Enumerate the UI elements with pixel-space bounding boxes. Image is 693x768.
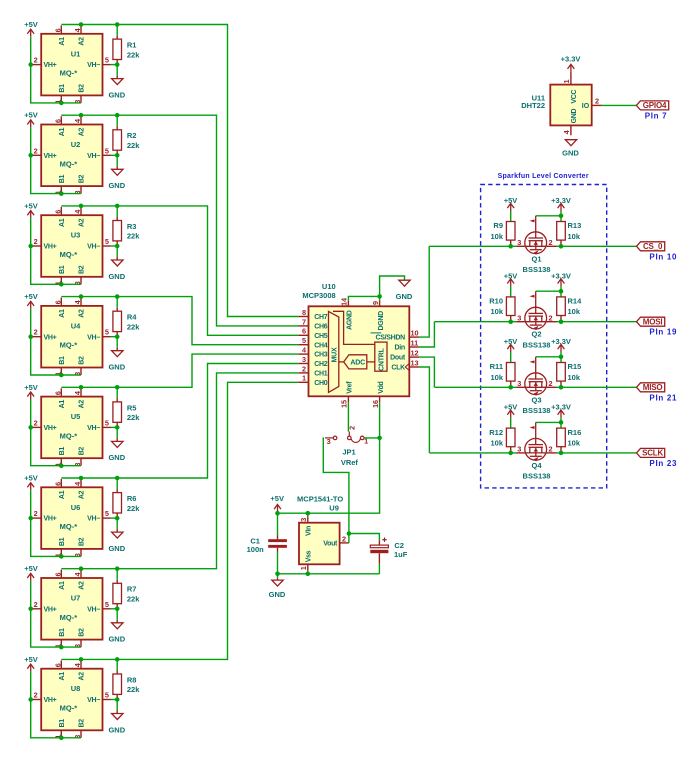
svg-text:+5V: +5V	[504, 271, 518, 280]
sensor U4 MQ-*	[32, 298, 111, 376]
wire to GND U7	[116, 609, 118, 620]
global label MISO	[637, 383, 665, 392]
R14 bottom pin	[560, 316, 562, 322]
resistor R2	[113, 130, 122, 150]
power +5V U9	[274, 505, 281, 513]
junction VH-/R3	[115, 244, 120, 249]
power +3.3V R13	[558, 204, 565, 212]
power +5V U8	[27, 664, 34, 672]
svg-text:MOSI: MOSI	[643, 318, 663, 327]
R11 bottom pin	[510, 381, 512, 387]
svg-text:6: 6	[53, 300, 62, 304]
svg-text:Q1: Q1	[531, 254, 541, 263]
R8 top pin	[116, 671, 118, 675]
pin 1 B1	[60, 549, 62, 557]
wire +3.3V to R13	[560, 211, 562, 221]
svg-text:12: 12	[411, 349, 419, 358]
svg-text:A2: A2	[79, 581, 86, 590]
pin 1 B1	[60, 458, 62, 466]
pin 2 VH+	[32, 336, 41, 338]
svg-text:MQ-*: MQ-*	[60, 522, 78, 531]
wire CS pin10	[419, 246, 429, 337]
svg-text:PIn 10: PIn 10	[649, 252, 677, 261]
svg-text:Dout: Dout	[390, 355, 406, 362]
svg-text:GND: GND	[108, 181, 125, 190]
svg-text:2: 2	[549, 313, 553, 322]
svg-text:BSS138: BSS138	[523, 340, 551, 349]
resistor R11	[506, 363, 515, 382]
svg-text:Vref: Vref	[346, 381, 353, 394]
svg-text:VH+: VH+	[44, 244, 57, 251]
wire gate Q3 to +3.3V	[536, 356, 561, 358]
power +5V R9	[507, 204, 514, 212]
svg-text:CH0: CH0	[314, 380, 328, 387]
R12 bottom pin	[510, 447, 512, 453]
svg-text:BSS138: BSS138	[523, 265, 551, 274]
junction R9/row	[508, 244, 513, 249]
svg-text:+5V: +5V	[24, 474, 38, 483]
svg-text:MQ-*: MQ-*	[60, 704, 78, 713]
svg-text:PIn 19: PIn 19	[649, 328, 677, 337]
pin 4 A2	[80, 570, 82, 578]
transistor Q3 BSS138	[525, 357, 547, 395]
svg-text:R15: R15	[568, 362, 582, 371]
R3 bottom pin	[116, 241, 118, 246]
junction VH-/R4	[115, 334, 120, 339]
pin 5 VH-	[103, 154, 111, 156]
svg-text:VH−: VH−	[87, 334, 100, 341]
svg-text:B2: B2	[79, 84, 86, 93]
svg-text:10: 10	[411, 329, 419, 338]
svg-text:10k: 10k	[568, 438, 581, 447]
svg-text:B2: B2	[79, 175, 86, 184]
gnd stub U7	[116, 620, 118, 623]
pin 5 VH-	[103, 699, 111, 701]
wire Vout up	[348, 534, 350, 543]
pin 4 A2	[80, 660, 82, 668]
svg-text:+3.3V: +3.3V	[551, 337, 571, 346]
svg-text:MQ-*: MQ-*	[60, 341, 78, 350]
svg-text:MQ-*: MQ-*	[60, 613, 78, 622]
ADC block	[344, 355, 367, 369]
junction B1 U4	[59, 373, 64, 378]
svg-text:10k: 10k	[490, 438, 503, 447]
wire GND rail U9	[278, 573, 380, 575]
wire U4 output to CH4	[61, 297, 298, 345]
R16 bottom pin	[560, 447, 562, 453]
svg-text:R3: R3	[127, 222, 137, 231]
pin 4 A2	[80, 388, 82, 396]
svg-text:2: 2	[549, 379, 553, 388]
junction VH+ U6	[28, 516, 33, 521]
wire Dout pin12	[419, 357, 434, 387]
wire rail to R2	[116, 115, 118, 126]
svg-text:6: 6	[53, 482, 62, 486]
gnd stub U9	[277, 578, 279, 580]
svg-text:GND: GND	[571, 108, 578, 123]
junction VH+ U1	[28, 62, 33, 67]
svg-text:VH−: VH−	[87, 425, 100, 432]
svg-text:1: 1	[562, 79, 571, 83]
clock marker pin 13	[405, 364, 409, 371]
svg-text:2: 2	[34, 328, 38, 337]
svg-text:B1: B1	[59, 628, 66, 637]
sensor U2 MQ-*	[32, 116, 111, 194]
svg-text:GND: GND	[108, 90, 125, 99]
svg-text:GND: GND	[108, 635, 125, 644]
junction R1 top	[115, 22, 120, 27]
power +3.3V R14	[558, 279, 565, 287]
junction Vout node	[347, 531, 352, 536]
pin 3 B2	[80, 95, 82, 103]
sensor U11 DHT22	[550, 85, 591, 126]
pin 6 stub	[298, 334, 308, 336]
svg-text:B1: B1	[59, 356, 66, 365]
pin 2 stub Q4	[547, 452, 557, 454]
svg-text:R13: R13	[568, 221, 582, 230]
R2 bottom pin	[116, 150, 118, 155]
pin 4 A2	[80, 116, 82, 124]
svg-text:5: 5	[105, 328, 109, 337]
wire +3.3V to R14	[560, 286, 562, 296]
R5 top pin	[116, 398, 118, 402]
R2 top pin	[116, 126, 118, 130]
junction R14/row	[559, 319, 564, 324]
svg-text:A1: A1	[59, 218, 66, 227]
svg-text:VH+: VH+	[44, 697, 57, 704]
svg-text:+5V: +5V	[24, 20, 38, 29]
svg-text:U2: U2	[71, 140, 81, 149]
svg-text:VH+: VH+	[44, 334, 57, 341]
R5 bottom pin	[116, 422, 118, 427]
global label CS_0	[637, 242, 665, 251]
svg-text:A1: A1	[59, 490, 66, 499]
sensor U5 MQ-*	[32, 388, 111, 466]
R4 bottom pin	[116, 332, 118, 337]
svg-text:PIn 21: PIn 21	[649, 393, 677, 402]
wire Vdd to +5V rail	[278, 402, 380, 513]
svg-text:BSS138: BSS138	[523, 472, 551, 481]
svg-text:B2: B2	[79, 356, 86, 365]
pin 8 stub	[298, 316, 308, 318]
svg-text:VH+: VH+	[44, 153, 57, 160]
svg-text:VH−: VH−	[87, 244, 100, 251]
wire row SCLK right	[557, 452, 637, 454]
pin 11 stub	[409, 346, 419, 348]
pin 1 B1	[60, 368, 62, 376]
R9 bottom pin	[510, 240, 512, 246]
svg-text:CNTRL: CNTRL	[379, 347, 386, 371]
pin 9 stub	[379, 300, 381, 306]
junction R7 top	[115, 566, 120, 571]
junction gate Q4	[559, 420, 564, 425]
junction R8 top	[115, 657, 120, 662]
C2 bottom pin	[378, 553, 380, 564]
power +3.3V U11	[568, 64, 575, 72]
svg-text:3: 3	[299, 518, 308, 522]
junction R3 top	[115, 204, 120, 209]
svg-text:VH+: VH+	[44, 516, 57, 523]
svg-text:5: 5	[105, 237, 109, 246]
svg-text:2: 2	[34, 146, 38, 155]
global label GPIO4	[636, 101, 668, 110]
svg-text:GND: GND	[108, 453, 125, 462]
power +5V U5	[27, 392, 34, 400]
pin 1 B1	[60, 277, 62, 285]
pin 6 A1	[60, 298, 62, 306]
junction VH-/R1	[115, 62, 120, 67]
pin 2 stub	[298, 372, 308, 374]
pin 2 VH+	[32, 699, 41, 701]
wire VIn	[307, 513, 309, 516]
wire to GND U6	[116, 518, 118, 529]
junction R6 top	[115, 476, 120, 481]
wire gate Q2 to +3.3V	[536, 290, 561, 292]
svg-text:C2: C2	[394, 541, 404, 550]
op-amp/IC U10 MCP3008	[309, 306, 410, 396]
svg-text:100n: 100n	[247, 545, 265, 554]
svg-text:6: 6	[302, 327, 306, 336]
global label SCLK	[637, 448, 665, 457]
junction A2 U5	[79, 385, 84, 390]
resistor R6	[113, 493, 122, 513]
junction VH-/R8	[115, 697, 120, 702]
pin 2 stub Q2	[547, 321, 557, 323]
power +5V U3	[27, 211, 34, 219]
svg-text:R16: R16	[568, 428, 582, 437]
global label MOSI	[637, 317, 665, 326]
junction B1 U1	[59, 101, 64, 106]
R7 top pin	[116, 580, 118, 584]
svg-text:+3.3V: +3.3V	[551, 403, 571, 412]
junction VH-/R2	[115, 153, 120, 158]
junction VH+ U2	[28, 153, 33, 158]
svg-text:A1: A1	[59, 581, 66, 590]
svg-text:16: 16	[371, 400, 380, 408]
svg-text:B1: B1	[59, 175, 66, 184]
power +5V U6	[27, 483, 34, 491]
wire Vref to JP1	[347, 402, 349, 431]
svg-text:10k: 10k	[568, 232, 581, 241]
R13 bottom pin	[560, 240, 562, 246]
MUX-ADC link	[339, 361, 344, 363]
resistor R10	[506, 297, 515, 316]
svg-text:MQ-*: MQ-*	[60, 69, 78, 78]
wire row SCLK left	[429, 452, 516, 454]
svg-text:11: 11	[411, 338, 419, 347]
svg-text:DHT22: DHT22	[521, 101, 545, 110]
pin 2 stub U11	[592, 104, 602, 106]
resistor R13	[557, 222, 566, 241]
regulator U9 MCP1541-TO	[299, 523, 340, 565]
pin 7 stub	[298, 325, 308, 327]
svg-text:+5V: +5V	[24, 111, 38, 120]
wire row MISO left	[434, 386, 516, 388]
pin 5 VH-	[103, 608, 111, 610]
junction A2 U6	[79, 476, 84, 481]
ground U1	[112, 79, 123, 85]
resistor R16	[557, 428, 566, 447]
svg-text:+5V: +5V	[24, 655, 38, 664]
svg-text:GPIO4: GPIO4	[643, 101, 667, 110]
pin 1 B1	[60, 186, 62, 194]
svg-text:R5: R5	[127, 403, 137, 412]
junction A2 U1	[79, 22, 84, 27]
svg-text:GND: GND	[396, 292, 413, 301]
sensor U6 MQ-*	[32, 479, 111, 557]
wire +5V feed U5	[31, 400, 81, 466]
svg-text:VH−: VH−	[87, 697, 100, 704]
svg-text:22k: 22k	[127, 141, 140, 150]
transistor Q4 BSS138	[525, 422, 547, 460]
svg-text:5: 5	[105, 600, 109, 609]
ground U9	[272, 580, 283, 586]
svg-text:A2: A2	[79, 490, 86, 499]
svg-text:R1: R1	[127, 41, 137, 50]
resistor R12	[506, 428, 515, 447]
wire +5V to R9	[510, 211, 512, 221]
pin 2 VH+	[32, 64, 41, 66]
resistor R15	[557, 363, 566, 382]
pin 5 stub	[298, 344, 308, 346]
junction VH+ U5	[28, 425, 33, 430]
svg-text:Sparkfun Level Converter: Sparkfun Level Converter	[498, 173, 589, 180]
svg-text:22k: 22k	[127, 595, 140, 604]
svg-text:B1: B1	[59, 537, 66, 546]
junction B1 U2	[59, 191, 64, 196]
wire to GND U2	[116, 155, 118, 166]
resistor R9	[506, 222, 515, 241]
wire VH- U3	[111, 245, 117, 247]
junction VH+ U8	[28, 697, 33, 702]
power +5V U7	[27, 573, 34, 581]
pin 3 B2	[80, 458, 82, 466]
svg-text:U4: U4	[71, 321, 81, 330]
power +5V U4	[27, 301, 34, 309]
dashed box Sparkfun Level Converter	[481, 185, 607, 488]
svg-text:MQ-*: MQ-*	[60, 431, 78, 440]
R10 bottom pin	[510, 316, 512, 322]
pin 2 VH+	[32, 154, 41, 156]
wire VH- U7	[111, 608, 117, 610]
svg-text:+5V: +5V	[504, 196, 518, 205]
svg-text:2: 2	[34, 691, 38, 700]
svg-text:5: 5	[105, 56, 109, 65]
svg-text:Q4: Q4	[531, 461, 542, 470]
CNTRL block	[375, 342, 387, 371]
svg-text:A1: A1	[59, 37, 66, 46]
pin 1 B1	[60, 640, 62, 648]
junction +5V/C1	[275, 511, 280, 516]
svg-text:1uF: 1uF	[394, 550, 408, 559]
svg-text:U9: U9	[329, 504, 339, 513]
ground U10	[399, 280, 410, 286]
pin 2 VH+	[32, 426, 41, 428]
svg-text:MUX: MUX	[331, 347, 338, 362]
wire VH- U5	[111, 426, 117, 428]
svg-text:B1: B1	[59, 447, 66, 456]
wire U5 output to CH3	[61, 354, 298, 387]
svg-text:R7: R7	[127, 585, 137, 594]
pin 13 stub	[409, 366, 419, 368]
svg-text:3: 3	[327, 437, 331, 446]
R3 top pin	[116, 217, 118, 221]
svg-text:BSS138: BSS138	[523, 406, 551, 415]
pin 2 VH+	[32, 517, 41, 519]
svg-text:MQ-*: MQ-*	[60, 250, 78, 259]
C1 top pin	[277, 536, 279, 540]
svg-text:R10: R10	[489, 297, 503, 306]
junction A2 U2	[79, 113, 84, 118]
svg-text:MCP3008: MCP3008	[302, 291, 335, 300]
svg-text:22k: 22k	[127, 50, 140, 59]
wire rail to R8	[116, 659, 118, 670]
wire rail to R3	[116, 206, 118, 217]
svg-text:2: 2	[34, 509, 38, 518]
svg-text:10k: 10k	[568, 307, 581, 316]
svg-text:6: 6	[53, 391, 62, 395]
svg-text:6: 6	[53, 663, 62, 667]
junction VIn	[306, 511, 311, 516]
pin 6 A1	[60, 207, 62, 215]
wire U2 output to CH6	[61, 115, 298, 326]
pin 6 A1	[60, 116, 62, 124]
junction R5 top	[115, 385, 120, 390]
junction R10/row	[508, 319, 513, 324]
junction A2 U7	[79, 566, 84, 571]
junction gate Q2	[559, 289, 564, 294]
svg-text:CH5: CH5	[314, 333, 328, 340]
wire CLK pin13	[419, 367, 429, 453]
wire Vss	[307, 571, 309, 574]
svg-text:JP1: JP1	[342, 448, 355, 457]
wire Vout to C2	[349, 534, 380, 541]
svg-text:Vss: Vss	[306, 550, 313, 562]
pin 4 A2	[80, 479, 82, 487]
resistor R4	[113, 311, 122, 331]
junction R11/row	[508, 385, 513, 390]
svg-text:+5V: +5V	[270, 494, 284, 503]
svg-text:A1: A1	[59, 672, 66, 681]
svg-text:Vout: Vout	[323, 541, 338, 548]
wire C1 bottom	[277, 552, 279, 574]
wire +5V feed U8	[31, 672, 81, 738]
wire to GND symbol	[277, 574, 279, 579]
wire row MOSI left	[434, 321, 516, 323]
svg-text:R6: R6	[127, 494, 137, 503]
svg-text:VH+: VH+	[44, 425, 57, 432]
wire +5V to R12	[510, 418, 512, 428]
junction R16/row	[559, 451, 564, 456]
wire row MISO right	[557, 386, 637, 388]
wire rail to R4	[116, 297, 118, 308]
svg-text:CS_0: CS_0	[643, 242, 663, 251]
wire VH- U2	[111, 154, 117, 156]
svg-text:+3.3V: +3.3V	[551, 271, 571, 280]
svg-text:2: 2	[348, 426, 357, 430]
svg-text:B1: B1	[59, 84, 66, 93]
svg-text:4: 4	[562, 129, 571, 134]
pin 2 stub Q3	[547, 386, 557, 388]
svg-text:R9: R9	[493, 221, 503, 230]
svg-text:Q2: Q2	[531, 330, 541, 339]
svg-text:A1: A1	[59, 400, 66, 409]
svg-text:7: 7	[302, 317, 306, 326]
internal AGND line	[333, 311, 375, 344]
svg-text:15: 15	[340, 400, 349, 408]
transistor Q2 BSS138	[525, 291, 547, 329]
junction R15/row	[559, 385, 564, 390]
